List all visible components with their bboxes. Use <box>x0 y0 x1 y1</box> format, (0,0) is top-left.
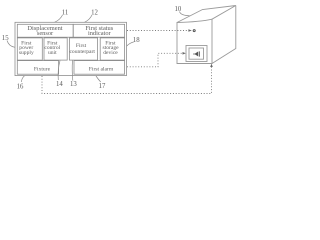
block: First storage device 18 <box>100 38 124 60</box>
svg-text:14: 14 <box>56 81 63 88</box>
svg-text:First alarm: First alarm <box>89 66 114 72</box>
svg-text:15: 15 <box>2 35 9 42</box>
block: Fixture 16 <box>17 61 58 75</box>
outer enclosure rect of monitoring device <box>15 22 127 75</box>
arrowhead up to cabinet bottom corner <box>210 64 213 67</box>
svg-text:16: 16 <box>17 84 24 91</box>
block: First counterpart 13 <box>69 38 97 60</box>
cabinet 10: front face <box>177 19 212 63</box>
label 13 + leader into diagram to First counterpart <box>70 61 77 88</box>
svg-text:device: device <box>103 50 118 56</box>
svg-text:13: 13 <box>70 81 77 88</box>
speaker grille inner square <box>189 48 204 59</box>
dotted connector: fixture down, along bottom, up to cabinet corner <box>42 66 212 94</box>
block: First status indicator 12 <box>73 24 124 37</box>
block: Displacement sensor 11 <box>17 24 73 37</box>
label 11 + leader <box>55 9 69 22</box>
svg-text:unit: unit <box>48 50 57 56</box>
indicator lamp on cabinet <box>193 29 196 32</box>
block: First alarm 17 <box>74 61 125 75</box>
label 15 + leader <box>2 35 15 48</box>
label 16 + leader <box>17 76 25 91</box>
svg-text:10: 10 <box>175 6 182 13</box>
arrowhead to lamp <box>188 29 191 32</box>
speaker grille outer square <box>186 46 207 62</box>
svg-text:counterpart: counterpart <box>69 49 95 55</box>
label 14 + leader into diagram to First control unit <box>56 61 63 88</box>
label 17 + leader to First alarm <box>96 76 106 90</box>
svg-text:sensor: sensor <box>37 30 54 37</box>
dotted connector: status indicator to cabinet lamp <box>127 30 188 32</box>
label 12 + leader <box>85 9 99 22</box>
svg-text:supply: supply <box>19 50 34 56</box>
svg-text:indicator: indicator <box>88 30 112 37</box>
block: First power supply 15 <box>17 38 42 60</box>
label 18 + leader to First storage device (right edge) <box>127 37 141 46</box>
cabinet right face <box>212 6 236 64</box>
arrowhead to speaker <box>183 52 186 55</box>
cabinet top face <box>177 6 236 23</box>
svg-text:17: 17 <box>99 83 106 90</box>
block: First control unit 14 <box>44 38 67 60</box>
svg-text:18: 18 <box>133 37 140 44</box>
svg-text:Fixture: Fixture <box>34 66 51 72</box>
speaker icon <box>194 51 198 56</box>
dotted connector: first alarm to cabinet speaker <box>127 53 183 67</box>
label 10 + leader to cabinet top face <box>175 6 190 16</box>
